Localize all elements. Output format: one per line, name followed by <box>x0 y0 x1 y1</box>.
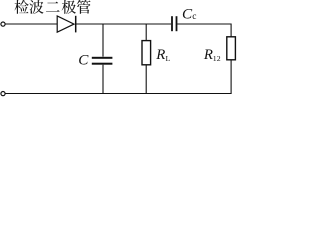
wire: input to diode anode <box>5 23 57 25</box>
label: 检波二极管 (detector diode) <box>14 0 90 14</box>
svg-text:R: R <box>155 47 165 63</box>
svg-text:12: 12 <box>213 54 221 63</box>
wire: Cc right plate to top-right corner, down to R12 <box>177 24 231 37</box>
wire: diode cathode to Cc left plate <box>76 23 171 25</box>
wire: RL branch from top wire <box>145 24 147 41</box>
capacitor Cc plates <box>171 16 173 31</box>
svg-text:L: L <box>166 54 171 63</box>
svg-text:C: C <box>78 52 89 69</box>
resistor R12 <box>227 37 236 60</box>
diode D (detector diode) <box>57 16 74 32</box>
capacitor C plates <box>92 57 113 59</box>
resistor RL <box>142 41 151 65</box>
node: C branch from top wire <box>102 24 104 57</box>
output terminal (bottom left) <box>1 92 5 96</box>
wire: R12 bottom to bottom rail <box>230 60 232 94</box>
svg-text:R: R <box>203 47 213 63</box>
wire: RL bottom to bottom rail <box>145 65 147 94</box>
bottom rail wire <box>5 93 231 95</box>
input terminal (top left) <box>1 22 5 26</box>
wire: C bottom plate to bottom rail <box>102 65 104 94</box>
svg-text:c: c <box>192 12 196 22</box>
